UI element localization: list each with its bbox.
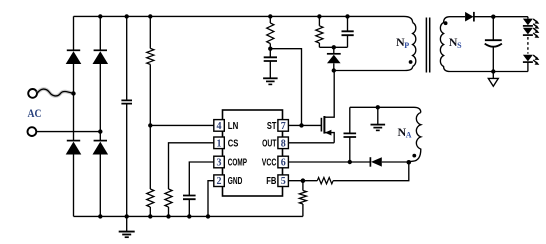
wire: startup node to ST pin: [270, 49, 301, 126]
transformer auxiliary winding NA: [409, 113, 421, 163]
svg-text:7: 7: [281, 121, 286, 132]
wire: CS pin to resistor R3: [169, 143, 214, 189]
node: fuse to bridge column 1 junction: [71, 91, 75, 95]
wire: snubber bottom joining: [319, 46, 347, 48]
ground (VCC side): [376, 105, 380, 109]
wire: FB pin to resistor R6: [288, 180, 317, 182]
pin 5 box: [278, 175, 289, 187]
resistor R3 (CS sense): [165, 189, 172, 207]
wire: LN pin to divider: [150, 124, 214, 126]
resistor R1 (line divider upper): [149, 16, 151, 48]
node dots on bottom rail: [98, 214, 102, 218]
node NS phase dot: [444, 21, 448, 25]
wire: LED column bottom: [527, 62, 529, 71]
wire: OUT pin to source: [288, 142, 334, 144]
svg-text:COMP: COMP: [228, 158, 247, 169]
svg-text:P: P: [404, 41, 409, 50]
wire: GND pin drop: [208, 181, 214, 217]
diode D5 (clamp): [333, 47, 335, 54]
node: drain node: [332, 68, 336, 72]
capacitor C3 (startup): [269, 49, 271, 58]
wire: VCC pin to auxiliary diode: [288, 161, 370, 163]
diode D2 (bridge top-right): [94, 49, 107, 51]
LED D10 emission arrows: [533, 55, 537, 63]
svg-text:2: 2: [217, 176, 222, 187]
pin 4 box: [214, 120, 225, 132]
svg-text:S: S: [457, 41, 462, 50]
node dots on top rail: [98, 14, 102, 18]
svg-text:GND: GND: [228, 176, 243, 187]
ground (startup): [263, 77, 278, 79]
svg-text:ST: ST: [267, 121, 277, 132]
svg-text:5: 5: [281, 176, 286, 187]
wire: output diode to LED string top: [474, 16, 528, 18]
wire: bottom ground rail: [74, 215, 303, 217]
svg-text:8: 8: [281, 138, 286, 149]
wire: NS bottom to LED string bottom: [450, 71, 528, 73]
wire: diode to NA junction: [382, 161, 409, 163]
diode D1 (bridge top-left): [67, 49, 80, 51]
transformer T1 primary NP: [413, 23, 416, 67]
wire: COMP pin to capacitor C2: [189, 162, 214, 196]
pin 1 box: [214, 137, 225, 149]
ground (main): [126, 216, 128, 231]
capacitor C4 (snubber): [347, 16, 349, 31]
svg-text:1: 1: [217, 138, 222, 149]
svg-text:3: 3: [217, 158, 222, 169]
diode D6 (VCC rectifier): [369, 157, 371, 167]
ground (output, open triangle): [492, 72, 494, 79]
node NP phase dot: [409, 60, 413, 64]
transistor Q1 (MOSFET): [320, 118, 322, 132]
node: LN pin junction: [148, 123, 152, 127]
wire: bridge column 2 vertical: [99, 16, 101, 216]
svg-text:VCC: VCC: [262, 158, 277, 169]
AC terminal lower: [28, 127, 37, 136]
resistor R7 (FB to ground): [302, 181, 304, 191]
svg-text:A: A: [406, 131, 412, 140]
resistor R5 (snubber): [318, 16, 320, 25]
wire: bridge column 1 vertical: [73, 16, 75, 216]
wire: NA top line: [350, 107, 421, 112]
capacitor C5 (VCC): [349, 137, 351, 162]
node NA phase dot: [412, 154, 416, 158]
capacitor C2 (COMP): [183, 196, 196, 200]
pin 3 box: [214, 156, 225, 168]
resistor R4 (startup, from rail): [269, 16, 271, 23]
input fuse squiggle wire: [37, 89, 73, 96]
op-amp/controller IC U1 body: [223, 110, 283, 196]
AC terminal upper: [28, 89, 37, 98]
wire: NS top to output diode: [450, 16, 465, 18]
node: startup junction: [268, 47, 272, 51]
wire: drain node to NP bottom: [334, 67, 413, 71]
wire: AC lower terminal to bridge column 2: [36, 131, 100, 133]
wire: dashed LED continuation: [527, 37, 529, 54]
transformer core: [426, 18, 429, 73]
wire: ST pin to gate: [288, 124, 321, 126]
pin 8 box: [278, 137, 289, 149]
pin 7 box: [278, 120, 289, 132]
svg-text:6: 6: [281, 158, 286, 169]
diode D4 (bridge bottom-right): [94, 140, 107, 142]
svg-text:FB: FB: [266, 176, 276, 187]
pin 6 box: [278, 156, 289, 168]
svg-text:4: 4: [217, 121, 222, 132]
diode D3 (bridge bottom-left): [67, 140, 80, 142]
svg-text:OUT: OUT: [262, 138, 276, 149]
capacitor C1 (bulk input cap): [126, 16, 128, 100]
LED D9 emission arrows: [533, 28, 537, 36]
svg-text:LN: LN: [228, 121, 239, 132]
node: NA bottom junction: [407, 160, 412, 165]
pin 2 box: [214, 175, 225, 187]
svg-text:CS: CS: [228, 138, 239, 149]
LED D8 emission arrows: [533, 19, 537, 27]
wire: R6 to NA junction: [333, 162, 409, 180]
transformer secondary NS: [440, 17, 450, 72]
wire: top rail and primary winding NP top: [74, 16, 413, 22]
resistor R6 (FB, horizontal): [317, 178, 333, 184]
resistor R2 (line divider lower): [147, 189, 154, 207]
diode D7 (output rectifier): [465, 12, 473, 22]
svg-text:AC: AC: [28, 106, 42, 120]
LED D8: [523, 19, 533, 26]
capacitor C6 (output, polarized): [492, 17, 494, 41]
LED D9: [523, 28, 533, 35]
LED D10: [523, 55, 533, 62]
wire: LED column top: [527, 17, 529, 19]
